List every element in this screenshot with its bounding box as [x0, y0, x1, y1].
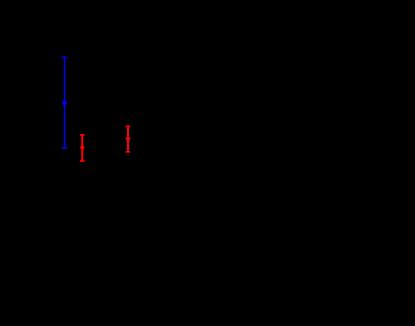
red data point R1 marker [80, 146, 84, 150]
red error bar R2 [126, 126, 130, 151]
blue error bar B1 [62, 57, 68, 148]
red data point R2 marker [126, 137, 130, 141]
blue data point B1 marker [62, 101, 67, 106]
red error bar R1 [80, 135, 85, 161]
